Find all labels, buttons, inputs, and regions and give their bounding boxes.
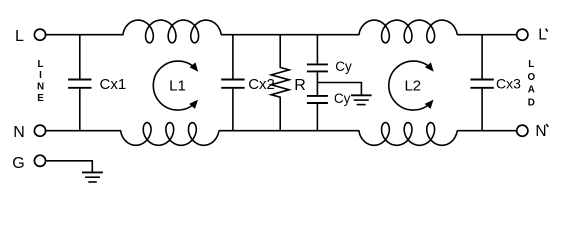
inductor L2 top winding: [359, 20, 457, 43]
svg-text:O: O: [527, 72, 535, 83]
capacitor Cx3: [470, 35, 493, 131]
wire G to ground: [46, 161, 93, 172]
node label LOAD: [527, 59, 535, 109]
ground for G: [82, 172, 103, 182]
terminal G: [34, 155, 45, 166]
inductor L2 bottom winding: [359, 123, 457, 146]
svg-text:A: A: [528, 85, 535, 96]
wire top right: [457, 34, 517, 36]
terminal L': [517, 29, 528, 40]
svg-text:N: N: [535, 123, 546, 140]
svg-text:R: R: [294, 77, 306, 94]
svg-text:I: I: [39, 70, 42, 81]
svg-text:L2: L2: [404, 78, 421, 95]
wire bottom mid: [219, 130, 360, 132]
terminal N: [34, 125, 45, 136]
capacitor Cx2: [221, 35, 244, 131]
svg-text:D: D: [528, 98, 535, 109]
node label LINE: [37, 59, 44, 104]
svg-text:N: N: [37, 82, 44, 93]
wire top mid: [221, 34, 359, 36]
terminal L: [34, 29, 45, 40]
svg-text:E: E: [37, 93, 44, 104]
capacitor Cy2: [307, 83, 328, 131]
svg-text:L: L: [528, 59, 534, 70]
inductor L1 rotation arrow: [153, 61, 198, 110]
resistor R: [271, 35, 289, 131]
wire Cy midpoint to ground: [317, 83, 361, 95]
terminal N': [517, 125, 528, 136]
wire N to L1: [46, 130, 122, 132]
capacitor Cy1: [307, 35, 328, 83]
svg-text:G: G: [12, 155, 24, 172]
wire bottom right: [457, 130, 517, 132]
svg-text:Cx1: Cx1: [100, 76, 127, 93]
inductor L2 rotation arrow: [389, 61, 434, 110]
ground for Cy: [351, 95, 372, 104]
inductor L1 top winding: [123, 20, 221, 43]
svg-text:Cy: Cy: [334, 91, 351, 106]
svg-text:L: L: [38, 59, 44, 70]
svg-text:Cy: Cy: [335, 59, 352, 74]
wire L to L1: [46, 34, 124, 36]
svg-text:L: L: [15, 28, 24, 45]
svg-text:N: N: [13, 124, 25, 141]
svg-text:Cx3: Cx3: [496, 76, 521, 92]
svg-text:L1: L1: [169, 78, 186, 95]
capacitor Cx1: [68, 35, 91, 131]
inductor L1 bottom winding: [121, 123, 219, 146]
